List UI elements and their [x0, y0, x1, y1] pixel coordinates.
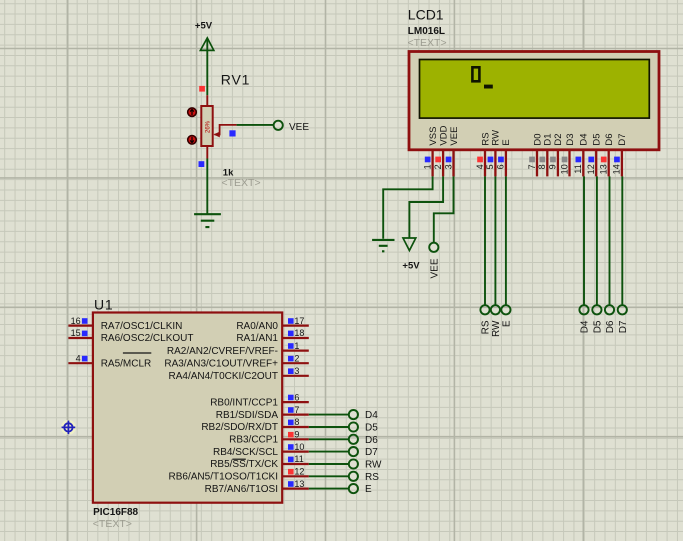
svg-text:RV1: RV1 [221, 72, 250, 88]
LCD pin 4 RS [475, 132, 492, 176]
svg-text:VSS: VSS [428, 127, 439, 146]
svg-text:13: 13 [294, 479, 304, 489]
svg-text:9: 9 [294, 430, 299, 440]
svg-text:10: 10 [559, 164, 569, 174]
LCD pin 9 D2 [548, 133, 565, 176]
svg-text:7: 7 [527, 164, 537, 169]
svg-text:RB5/SS/TX/CK: RB5/SS/TX/CK [210, 459, 278, 470]
wire U1 pin 7 to D4 [309, 414, 349, 416]
op-amp U1 body (PIC16F88) [93, 313, 282, 503]
svg-text:7: 7 [294, 405, 299, 415]
wire U1 pin 13 to E [309, 488, 349, 490]
svg-text:D2: D2 [553, 133, 564, 145]
U1 pin 7 RB1/SDI/SDA [216, 405, 309, 421]
terminal D4 (right of U1) [349, 410, 358, 419]
wire LCD VSS to ground [383, 176, 432, 238]
wire LCD RW down [494, 176, 496, 304]
LCD pin 13 D6 [599, 133, 616, 176]
svg-text:VEE: VEE [429, 258, 440, 278]
wire U1 pin 8 to D5 [309, 426, 349, 428]
svg-text:+5V: +5V [402, 261, 420, 272]
svg-text:VEE: VEE [289, 122, 309, 133]
svg-text:RA5/MCLR: RA5/MCLR [101, 358, 152, 369]
svg-text:RW: RW [491, 130, 502, 146]
wire RV1 to ground [206, 159, 208, 214]
SS overline [232, 458, 245, 460]
svg-text:RA2/AN2/CVREF/VREF-: RA2/AN2/CVREF/VREF- [167, 346, 278, 357]
terminal E (below LCD) [501, 305, 510, 314]
svg-text:RB0/INT/CCP1: RB0/INT/CCP1 [210, 397, 278, 408]
svg-text:D7: D7 [617, 133, 628, 145]
svg-text:RB1/SDI/SDA: RB1/SDI/SDA [216, 410, 279, 421]
LCD pin 7 D0 [527, 133, 544, 176]
LCD pin 6 E [496, 139, 513, 176]
svg-text:16: 16 [71, 316, 81, 326]
U1 pin 6 RB0/INT/CCP1 [210, 392, 309, 408]
U1 pin 18 RA1/AN1 [236, 328, 308, 344]
svg-text:VDD: VDD [438, 125, 449, 145]
U1 pin 9 RB3/CCP1 [229, 430, 309, 446]
svg-text:RS: RS [481, 320, 492, 334]
svg-text:RS: RS [480, 132, 491, 145]
LCD LM016L body [409, 52, 659, 150]
svg-text:D6: D6 [604, 133, 615, 145]
svg-text:RS: RS [365, 472, 379, 483]
svg-text:+5V: +5V [195, 21, 213, 32]
U1 pin 17 RA0/AN0 [236, 316, 308, 332]
LCD pin 1 VSS [422, 127, 439, 177]
svg-text:6: 6 [294, 392, 299, 402]
wire LCD D6 down [609, 176, 611, 304]
svg-text:RB6/AN5/T1OSO/T1CKI: RB6/AN5/T1OSO/T1CKI [169, 472, 278, 483]
svg-text:D7: D7 [618, 320, 629, 333]
LCD pin 11 D4 [573, 133, 590, 176]
svg-text:LCD1: LCD1 [408, 7, 444, 23]
RV1 adjust buttons [188, 108, 197, 144]
svg-text:<TEXT>: <TEXT> [408, 37, 447, 49]
svg-text:VEE: VEE [449, 127, 460, 146]
wire LCD RS down [484, 176, 486, 304]
power symbol +5V (down arrow) [403, 238, 416, 251]
U1 pin 8 RB2/SDO/RX/DT [201, 417, 308, 433]
svg-text:15: 15 [71, 328, 81, 338]
U1 pin 12 RB6/AN5/T1OSO/T1CKI [169, 467, 309, 483]
U1 pin 1 RA2/AN2/CVREF/VREF- [167, 341, 309, 357]
svg-text:18: 18 [294, 328, 304, 338]
U1 pin 4 RA5/MCLR [68, 353, 151, 369]
terminal D7 (right of U1) [349, 447, 358, 456]
terminal D7 (below LCD) [618, 305, 627, 314]
svg-text:U1: U1 [94, 297, 114, 313]
svg-text:D4: D4 [579, 133, 590, 145]
svg-text:9: 9 [548, 164, 558, 169]
svg-text:17: 17 [294, 316, 304, 326]
resistor RV1 (potentiometer 1k) [201, 95, 236, 158]
svg-text:8: 8 [294, 417, 299, 427]
U1 pin 2 RA3/AN3/C1OUT/VREF+ [164, 353, 308, 369]
svg-text:1: 1 [294, 341, 299, 351]
svg-text:4: 4 [76, 353, 81, 363]
svg-text:E: E [502, 320, 513, 327]
ground (below LCD pin1) [372, 240, 394, 251]
svg-text:LM016L: LM016L [408, 26, 445, 37]
svg-text:6: 6 [496, 164, 506, 169]
LCD screen [420, 60, 650, 119]
svg-text:11: 11 [294, 454, 303, 464]
terminal D4 (below LCD) [579, 305, 588, 314]
svg-text:D3: D3 [565, 133, 576, 145]
LCD pin 3 VEE [443, 127, 460, 177]
svg-text:13: 13 [599, 164, 609, 174]
LCD cursor [484, 85, 493, 89]
terminal VEE (below LCD) [429, 243, 438, 252]
svg-text:RA7/OSC1/CLKIN: RA7/OSC1/CLKIN [101, 321, 183, 332]
svg-text:D6: D6 [605, 320, 616, 333]
svg-text:RA3/AN3/C1OUT/VREF+: RA3/AN3/C1OUT/VREF+ [164, 358, 278, 369]
wire U1 pin 12 to RS [309, 475, 349, 477]
svg-text:D4: D4 [365, 410, 378, 421]
svg-text:12: 12 [586, 164, 596, 174]
wire LCD VDD to +5V [409, 176, 443, 238]
svg-text:D1: D1 [543, 133, 554, 145]
MCLR overline [123, 352, 151, 354]
svg-text:RB3/CCP1: RB3/CCP1 [229, 435, 278, 446]
wire LCD VEE to terminal [434, 176, 454, 242]
wire LCD D7 down [621, 176, 623, 304]
terminal E (right of U1) [349, 484, 358, 493]
svg-text:1: 1 [422, 164, 432, 169]
svg-text:RA0/AN0: RA0/AN0 [236, 321, 278, 332]
svg-text:10: 10 [294, 442, 304, 452]
terminal RS (right of U1) [349, 472, 358, 481]
svg-text:PIC16F88: PIC16F88 [93, 507, 138, 518]
LCD character D [472, 67, 479, 81]
svg-text:26%: 26% [206, 120, 212, 133]
wire U1 pin 9 to D6 [309, 438, 349, 440]
LCD pin 5 RW [485, 130, 502, 176]
svg-text:2: 2 [433, 164, 443, 169]
svg-text:D5: D5 [365, 423, 378, 434]
svg-text:<TEXT>: <TEXT> [222, 177, 261, 189]
svg-text:14: 14 [612, 164, 622, 174]
svg-text:11: 11 [573, 164, 583, 173]
svg-text:3: 3 [443, 164, 453, 169]
svg-text:RW: RW [365, 460, 382, 471]
svg-text:RB7/AN6/T1OSI: RB7/AN6/T1OSI [205, 484, 278, 495]
svg-text:RB4/SCK/SCL: RB4/SCK/SCL [213, 447, 278, 458]
LCD pin 8 D1 [537, 133, 554, 176]
svg-text:D5: D5 [592, 133, 603, 145]
svg-text:8: 8 [537, 164, 547, 169]
svg-text:D5: D5 [593, 320, 604, 333]
ground (below RV1) [194, 214, 221, 227]
U1 pin 13 RB7/AN6/T1OSI [205, 479, 309, 495]
wire LCD D5 down [596, 176, 598, 304]
U1 pin 11 RB5/SS/TX/CK [210, 454, 309, 470]
svg-text:RA6/OSC2/CLKOUT: RA6/OSC2/CLKOUT [101, 333, 194, 344]
svg-text:RA1/AN1: RA1/AN1 [236, 333, 278, 344]
svg-text:5: 5 [485, 164, 495, 169]
svg-text:RA4/AN4/T0CKI/C2OUT: RA4/AN4/T0CKI/C2OUT [169, 371, 278, 382]
wire U1 pin 11 to RW [309, 463, 349, 465]
wire LCD D4 down [583, 176, 585, 304]
LCD pin 14 D7 [612, 133, 629, 176]
terminal RW (below LCD) [491, 305, 500, 314]
svg-text:D7: D7 [365, 447, 378, 458]
wire RV1 wiper to VEE [237, 124, 273, 126]
wire LCD E down [505, 176, 507, 304]
svg-text:E: E [365, 484, 372, 495]
wire U1 pin 10 to D7 [309, 451, 349, 453]
power symbol +5V (top) [195, 21, 214, 51]
U1 pin 15 RA6/OSC2/CLKOUT [68, 328, 193, 344]
terminal RS (below LCD) [480, 305, 489, 314]
svg-text:3: 3 [294, 366, 299, 376]
svg-text:12: 12 [294, 467, 304, 477]
LCD pin 12 D5 [586, 133, 603, 176]
svg-text:4: 4 [475, 164, 485, 169]
svg-text:RB2/SDO/RX/DT: RB2/SDO/RX/DT [201, 422, 278, 433]
U1 pin 10 RB4/SCK/SCL [213, 442, 309, 458]
U1 pin 16 RA7/OSC1/CLKIN [68, 316, 182, 332]
U1 pin 3 RA4/AN4/T0CKI/C2OUT [169, 366, 309, 382]
RV1 pin-state squares [199, 86, 205, 92]
LCD pin 10 D3 [559, 133, 576, 176]
terminal D6 (right of U1) [349, 435, 358, 444]
svg-text:2: 2 [294, 353, 299, 363]
terminal D5 (below LCD) [592, 305, 601, 314]
node origin marker [61, 420, 76, 435]
svg-text:E: E [501, 139, 512, 145]
svg-text:D6: D6 [365, 435, 378, 446]
svg-text:<TEXT>: <TEXT> [93, 518, 132, 530]
LCD pin 2 VDD [433, 125, 450, 176]
terminal RW (right of U1) [349, 459, 358, 468]
terminal VEE (right of RV1) [274, 121, 283, 130]
wire +5V to RV1 [206, 39, 208, 96]
svg-text:RW: RW [491, 320, 502, 337]
svg-text:D4: D4 [580, 320, 591, 333]
terminal D6 (below LCD) [605, 305, 614, 314]
terminal D5 (right of U1) [349, 422, 358, 431]
